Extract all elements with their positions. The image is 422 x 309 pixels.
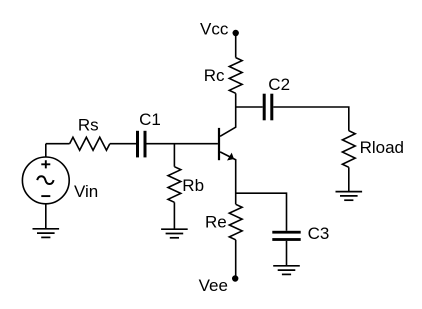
ground under Vin [33,229,60,238]
wire Vcc to Rc [235,34,237,58]
svg-text:Vin: Vin [74,182,98,201]
resistor Rs [70,137,110,150]
svg-text:Rload: Rload [360,138,404,157]
svg-text:C1: C1 [139,110,161,129]
wire Vin bottom [45,204,47,229]
wire C3 to ground [286,241,288,266]
transistor Q1 emitter lead [220,152,236,204]
svg-text:Rb: Rb [182,176,204,195]
transistor Q1 base bar [218,128,220,160]
wire Rb branch [173,144,175,167]
transistor Q1 [218,107,236,204]
svg-text:Re: Re [205,212,227,231]
ground under Rload [336,192,363,201]
capacitor C3 [272,231,300,241]
transistor Q1 emitter arrow [227,153,234,161]
wire Re to Vee [235,240,237,276]
resistor Rload [342,131,355,168]
wire Rc to collector node [235,93,237,107]
wire C2 to Rload [273,107,349,131]
svg-text:Rs: Rs [78,115,99,134]
wire Vin top riser [45,144,47,157]
wire Rb to ground [173,202,175,229]
svg-text:C3: C3 [308,224,330,243]
ground under Rb [161,229,188,238]
resistor Rb [168,167,181,203]
capacitor C2 [263,94,274,121]
svg-text:Rc: Rc [204,66,225,85]
wire Rload to ground [348,167,350,191]
transistor Q1 collector lead [220,107,236,136]
wire collector to C2 [236,106,263,108]
voltage source Vin [22,157,69,204]
resistor Rc [229,58,242,94]
ground under C3 [273,266,300,275]
wire emitter junction to C3 [236,193,287,231]
node Vcc terminal dot [233,30,239,36]
svg-text:Vcc: Vcc [200,20,229,39]
resistor Re [229,204,242,240]
node Vee terminal dot [232,275,238,281]
svg-text:C2: C2 [268,75,290,94]
svg-text:Vee: Vee [199,276,228,295]
wire C1 to base [147,143,218,145]
capacitor C1 [136,131,147,158]
wire Rs to C1 [110,143,136,145]
wire Vin to Rs [46,143,70,145]
